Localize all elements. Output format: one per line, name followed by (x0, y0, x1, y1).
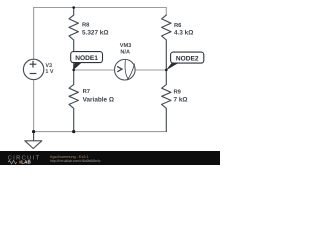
svg-text:1 V: 1 V (45, 69, 53, 75)
svg-text:V3: V3 (45, 63, 52, 69)
svg-text:http://circuitlab.com/c/6e9b66: http://circuitlab.com/c/6e9b66bcfe (50, 159, 101, 163)
svg-text:LAB: LAB (21, 160, 31, 165)
svg-text:R9: R9 (174, 89, 182, 96)
svg-text:NODE1: NODE1 (75, 55, 98, 62)
svg-text:VM3: VM3 (120, 43, 132, 49)
svg-text:4.3 kΩ: 4.3 kΩ (174, 30, 193, 37)
svg-text:5.327 kΩ: 5.327 kΩ (82, 29, 108, 36)
svg-text:R8: R8 (82, 22, 90, 29)
svg-text:R6: R6 (174, 22, 182, 29)
svg-text:Variable Ω: Variable Ω (83, 97, 114, 104)
svg-text:N/A: N/A (120, 48, 130, 55)
svg-text:NODE2: NODE2 (176, 55, 199, 62)
svg-text:7 kΩ: 7 kΩ (174, 97, 188, 104)
svg-text:R7: R7 (83, 89, 90, 95)
